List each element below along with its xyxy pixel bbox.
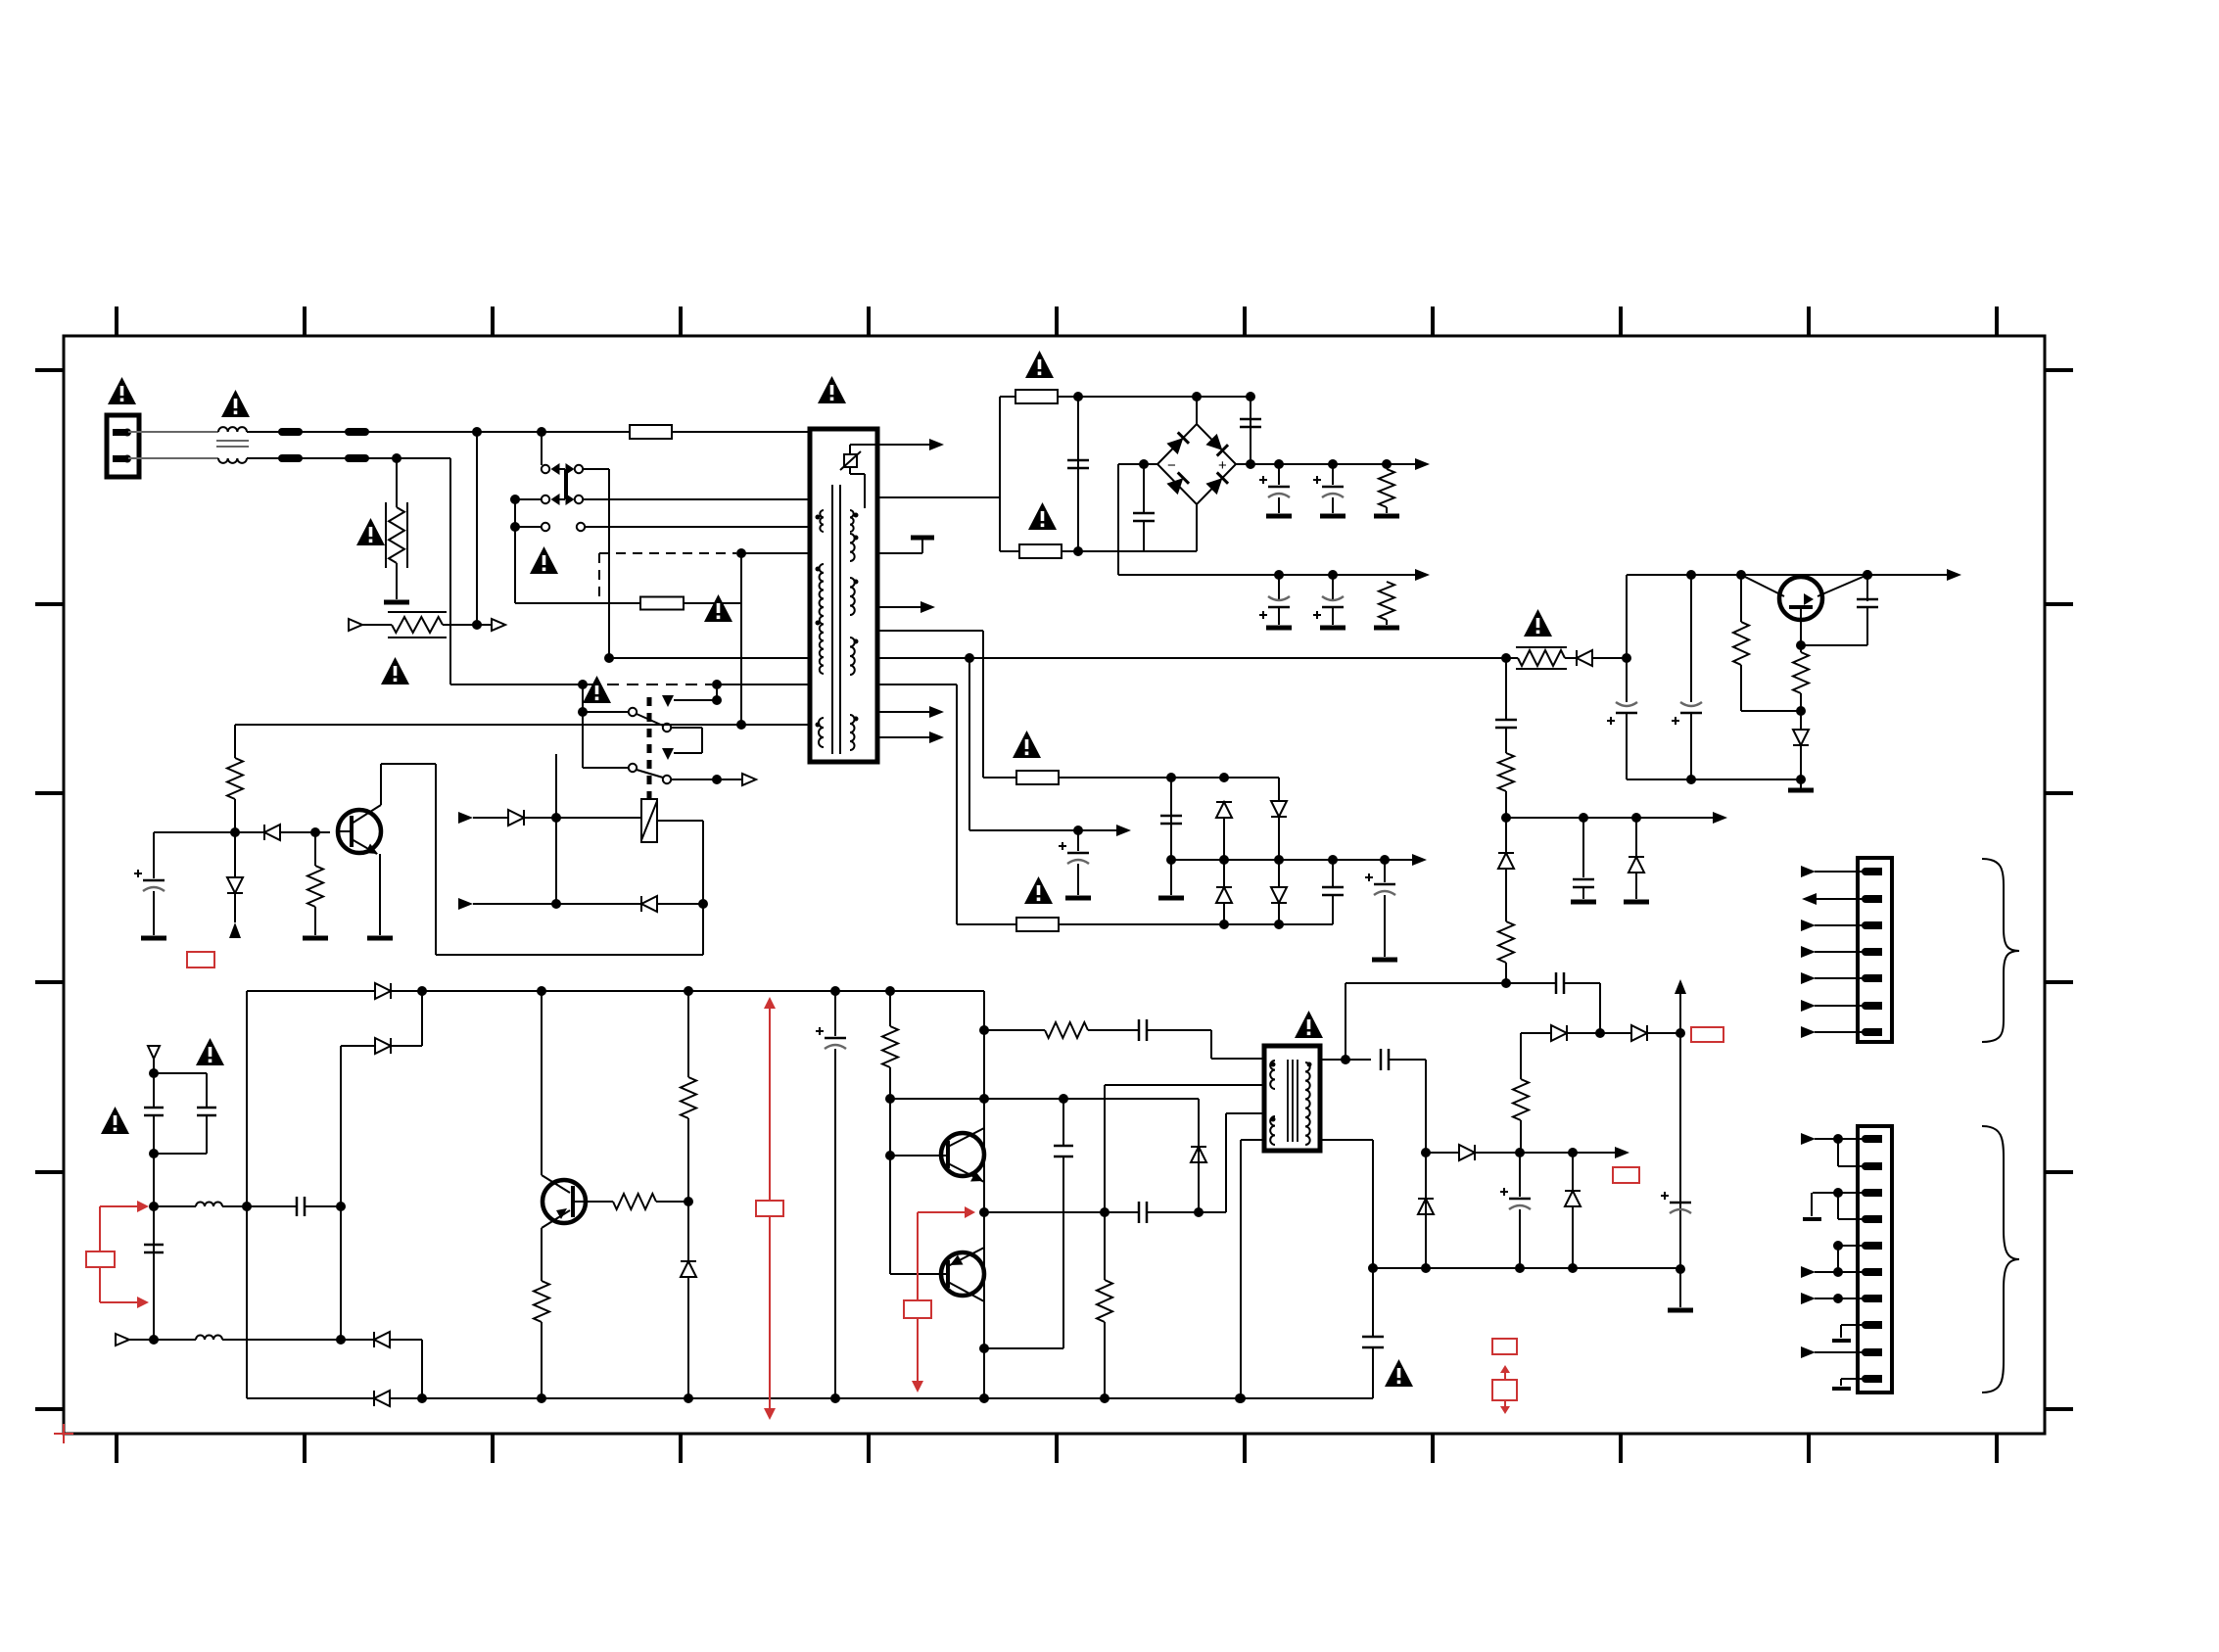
svg-text:−: − [1167,457,1176,474]
svg-text:+: + [1218,457,1227,474]
